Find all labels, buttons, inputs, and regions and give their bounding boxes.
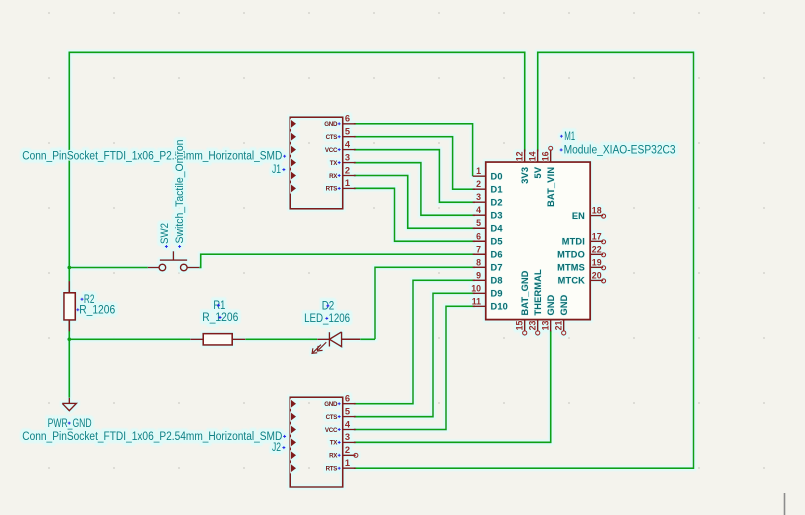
- M1 top pin 14 (5V): [537, 149, 539, 162]
- svg-text:5: 5: [345, 127, 350, 137]
- pin socket connector J1: [290, 114, 356, 209]
- M1 pin 3 (D2): [473, 201, 486, 203]
- connector J1 body: [290, 117, 343, 209]
- svg-text:14: 14: [528, 151, 538, 161]
- wire 3V3 rail to R1 left: [69, 338, 190, 340]
- svg-text:Switch_Tactile_Omron: Switch_Tactile_Omron: [174, 140, 186, 244]
- svg-text:R_1206: R_1206: [79, 304, 115, 316]
- J1 pin 3 (TX): [343, 162, 356, 164]
- resistor R2 (vertical): [64, 281, 75, 331]
- svg-text:GND: GND: [324, 401, 338, 408]
- svg-text:4: 4: [476, 205, 481, 215]
- svg-text:VCC: VCC: [325, 427, 338, 434]
- svg-text:TX: TX: [330, 440, 339, 447]
- M1 pin 4 (D3): [473, 214, 486, 216]
- svg-text:RTS: RTS: [326, 186, 338, 193]
- svg-text:TX: TX: [330, 160, 339, 167]
- svg-text:SW2: SW2: [159, 223, 171, 244]
- J1 pin 1 (RTS): [343, 187, 356, 189]
- svg-text:11: 11: [472, 296, 481, 306]
- M1 top pin 12 (3V3): [524, 149, 526, 162]
- wire 5V rail: M1 pin14 up, right, down to J2 pin1: [354, 52, 694, 468]
- svg-text:10: 10: [471, 283, 481, 293]
- svg-text:BAT_VIN: BAT_VIN: [546, 167, 556, 207]
- M1 right pin 17 (MTDI): [590, 240, 603, 242]
- svg-text:3: 3: [476, 192, 481, 202]
- svg-text:MTCK: MTCK: [558, 276, 586, 286]
- M1 right pin 19 (MTMS): [590, 266, 603, 268]
- svg-text:16: 16: [541, 151, 551, 161]
- J1 pin 5 (CTS): [343, 136, 356, 138]
- wire SW2 left pin to 3V3 rail: [69, 267, 148, 269]
- M1 pin 2 (D1): [473, 188, 486, 190]
- svg-text:3: 3: [345, 432, 350, 442]
- J2 pin 2 unconnected circle: [354, 453, 358, 457]
- M1 pin 11 (D10): [473, 305, 486, 307]
- junction at SW2 tap on 3V3 rail: [67, 266, 71, 270]
- svg-text:CTS: CTS: [326, 414, 338, 421]
- svg-text:MTDO: MTDO: [557, 250, 585, 260]
- svg-text:7: 7: [476, 244, 481, 254]
- svg-text:VCC: VCC: [325, 147, 338, 154]
- svg-text:13: 13: [541, 321, 551, 331]
- M1 pin 6 (D5): [473, 240, 486, 242]
- svg-text:18: 18: [592, 206, 602, 216]
- svg-text:Conn_PinSocket_FTDI_1x06_P2.54: Conn_PinSocket_FTDI_1x06_P2.54mm_Horizon…: [22, 151, 282, 163]
- svg-text:BAT_GND: BAT_GND: [520, 270, 530, 315]
- wire J1 pin6 to M1 D0: [354, 124, 473, 176]
- wire J1 pin5 to M1 D1: [354, 137, 475, 190]
- svg-text:Module_XIAO-ESP32C3: Module_XIAO-ESP32C3: [564, 145, 676, 157]
- svg-text:22: 22: [592, 244, 602, 254]
- sheet border (bottom-right fragment): [784, 493, 786, 515]
- J2 pin 6 (GND): [343, 403, 356, 405]
- svg-text:D10: D10: [491, 302, 508, 312]
- svg-text:1: 1: [345, 178, 350, 188]
- svg-text:RX: RX: [329, 173, 338, 180]
- J2 pin 5 (CTS): [343, 416, 356, 418]
- svg-text:12: 12: [515, 151, 525, 161]
- svg-text:5V: 5V: [533, 166, 543, 178]
- J1 pin 6 (GND): [343, 123, 356, 125]
- svg-text:RX: RX: [329, 453, 338, 460]
- svg-text:GND: GND: [324, 121, 338, 128]
- M1 right pin 20 (MTCK): [590, 279, 603, 281]
- J2 pin 4 (VCC): [343, 429, 356, 431]
- svg-text:RTS: RTS: [326, 466, 338, 473]
- wire J1 pin4 to M1 D2: [354, 150, 475, 203]
- svg-text:D5: D5: [491, 237, 503, 247]
- svg-text:D9: D9: [491, 289, 503, 299]
- connector J2 body: [290, 397, 343, 487]
- svg-text:20: 20: [592, 270, 602, 280]
- svg-text:MTMS: MTMS: [557, 263, 585, 273]
- M1 pin 1 (D0): [473, 175, 486, 177]
- svg-text:1: 1: [345, 458, 350, 468]
- svg-text:THERMAL: THERMAL: [533, 269, 543, 315]
- svg-text:4: 4: [345, 139, 351, 149]
- svg-text:D0: D0: [491, 172, 503, 182]
- J2 pin 3 (TX): [343, 441, 356, 443]
- svg-text:GND: GND: [546, 294, 556, 315]
- M1 bottom pin 13 (GND): [550, 320, 552, 332]
- wire M1 D9 down to J2 pin5: [354, 293, 475, 416]
- M1 bottom pin 21 (GND): [563, 320, 565, 332]
- LED D2: [312, 332, 360, 354]
- M1 bottom pin 23 (THERMAL): [537, 320, 539, 332]
- wire LED anode to D7 wire: [360, 338, 375, 340]
- M1 pin 8 (D7): [473, 266, 486, 268]
- svg-text:5: 5: [345, 406, 350, 416]
- svg-text:GND: GND: [559, 294, 569, 315]
- svg-text:D3: D3: [491, 211, 503, 221]
- M1 right pin 18 (EN): [590, 215, 603, 217]
- wire M1 pin13 GND down to J2 pin3: [354, 331, 551, 443]
- pin socket connector J2: [290, 394, 356, 488]
- svg-text:5: 5: [476, 218, 481, 228]
- svg-text:EN: EN: [572, 211, 585, 221]
- M1 pin 7 (D6): [473, 253, 486, 255]
- svg-text:D6: D6: [491, 250, 503, 260]
- J2 pin 2 (RX): [343, 454, 356, 456]
- svg-text:D4: D4: [491, 224, 504, 234]
- svg-text:MTDI: MTDI: [562, 237, 585, 247]
- wire J1 pin2 to M1 D4: [354, 176, 475, 229]
- M1 top pin 16 (BAT_VIN): [550, 149, 552, 162]
- M1 pin 5 (D4): [473, 227, 486, 229]
- svg-text:Conn_PinSocket_FTDI_1x06_P2.54: Conn_PinSocket_FTDI_1x06_P2.54mm_Horizon…: [22, 431, 282, 443]
- svg-text:17: 17: [592, 231, 602, 241]
- svg-text:J1: J1: [272, 164, 281, 176]
- svg-text:23: 23: [528, 321, 538, 331]
- J1 pin 2 (RX): [343, 175, 356, 177]
- svg-text:J2: J2: [272, 442, 281, 454]
- svg-text:D8: D8: [491, 276, 503, 286]
- wire SW2 right pin up to M1 D6: [199, 254, 475, 267]
- svg-text:D1: D1: [491, 185, 503, 195]
- svg-text:9: 9: [476, 270, 481, 280]
- M1 pin 9 (D8): [473, 279, 486, 281]
- svg-text:M1: M1: [564, 131, 575, 143]
- wire M1 D8 down to J2 pin6: [354, 280, 475, 403]
- switch SW2 tactile: [148, 251, 199, 271]
- svg-text:2: 2: [476, 179, 481, 189]
- svg-text:3: 3: [345, 152, 350, 162]
- M1 bottom pin 15 (BAT_GND): [524, 320, 526, 332]
- svg-text:6: 6: [345, 114, 350, 124]
- M1 pin 10 (D9): [473, 292, 486, 294]
- svg-text:4: 4: [345, 419, 351, 429]
- power symbol PWR_GND: [62, 398, 76, 411]
- svg-text:6: 6: [345, 394, 350, 404]
- M1 right pin 22 (MTDO): [590, 253, 603, 255]
- svg-text:3V3: 3V3: [520, 167, 530, 184]
- svg-text:21: 21: [554, 321, 564, 331]
- J1 pin 4 (VCC): [343, 149, 356, 151]
- wire M1 D10 down to J2 pin4: [354, 306, 475, 429]
- module M1 XIAO-ESP32C3 body: [486, 162, 591, 320]
- svg-text:8: 8: [476, 257, 481, 267]
- junction at R1 tap on 3V3 rail: [67, 337, 71, 341]
- svg-text:CTS: CTS: [326, 134, 338, 141]
- svg-text:2: 2: [345, 445, 350, 455]
- resistor R1 (horizontal): [190, 334, 245, 345]
- wire J1 pin1 to M1 D5: [354, 188, 475, 241]
- svg-text:D2: D2: [491, 198, 503, 208]
- wire 3V3 rail: left vertical and top run to M1 pin12: [69, 52, 524, 397]
- J2 pin 1 (RTS): [343, 467, 356, 469]
- wire M1 D7 left and down to LED: [375, 267, 475, 339]
- wire J1 pin3 to M1 D3: [354, 163, 475, 216]
- svg-text:1: 1: [476, 166, 481, 176]
- svg-text:19: 19: [592, 257, 602, 267]
- wire R1 right to LED cathode: [245, 338, 317, 340]
- svg-text:15: 15: [515, 321, 525, 331]
- M1 pin 16 unconnected circle: [549, 146, 553, 150]
- svg-text:6: 6: [476, 231, 481, 241]
- svg-text:D7: D7: [491, 263, 503, 273]
- svg-text:2: 2: [345, 165, 350, 175]
